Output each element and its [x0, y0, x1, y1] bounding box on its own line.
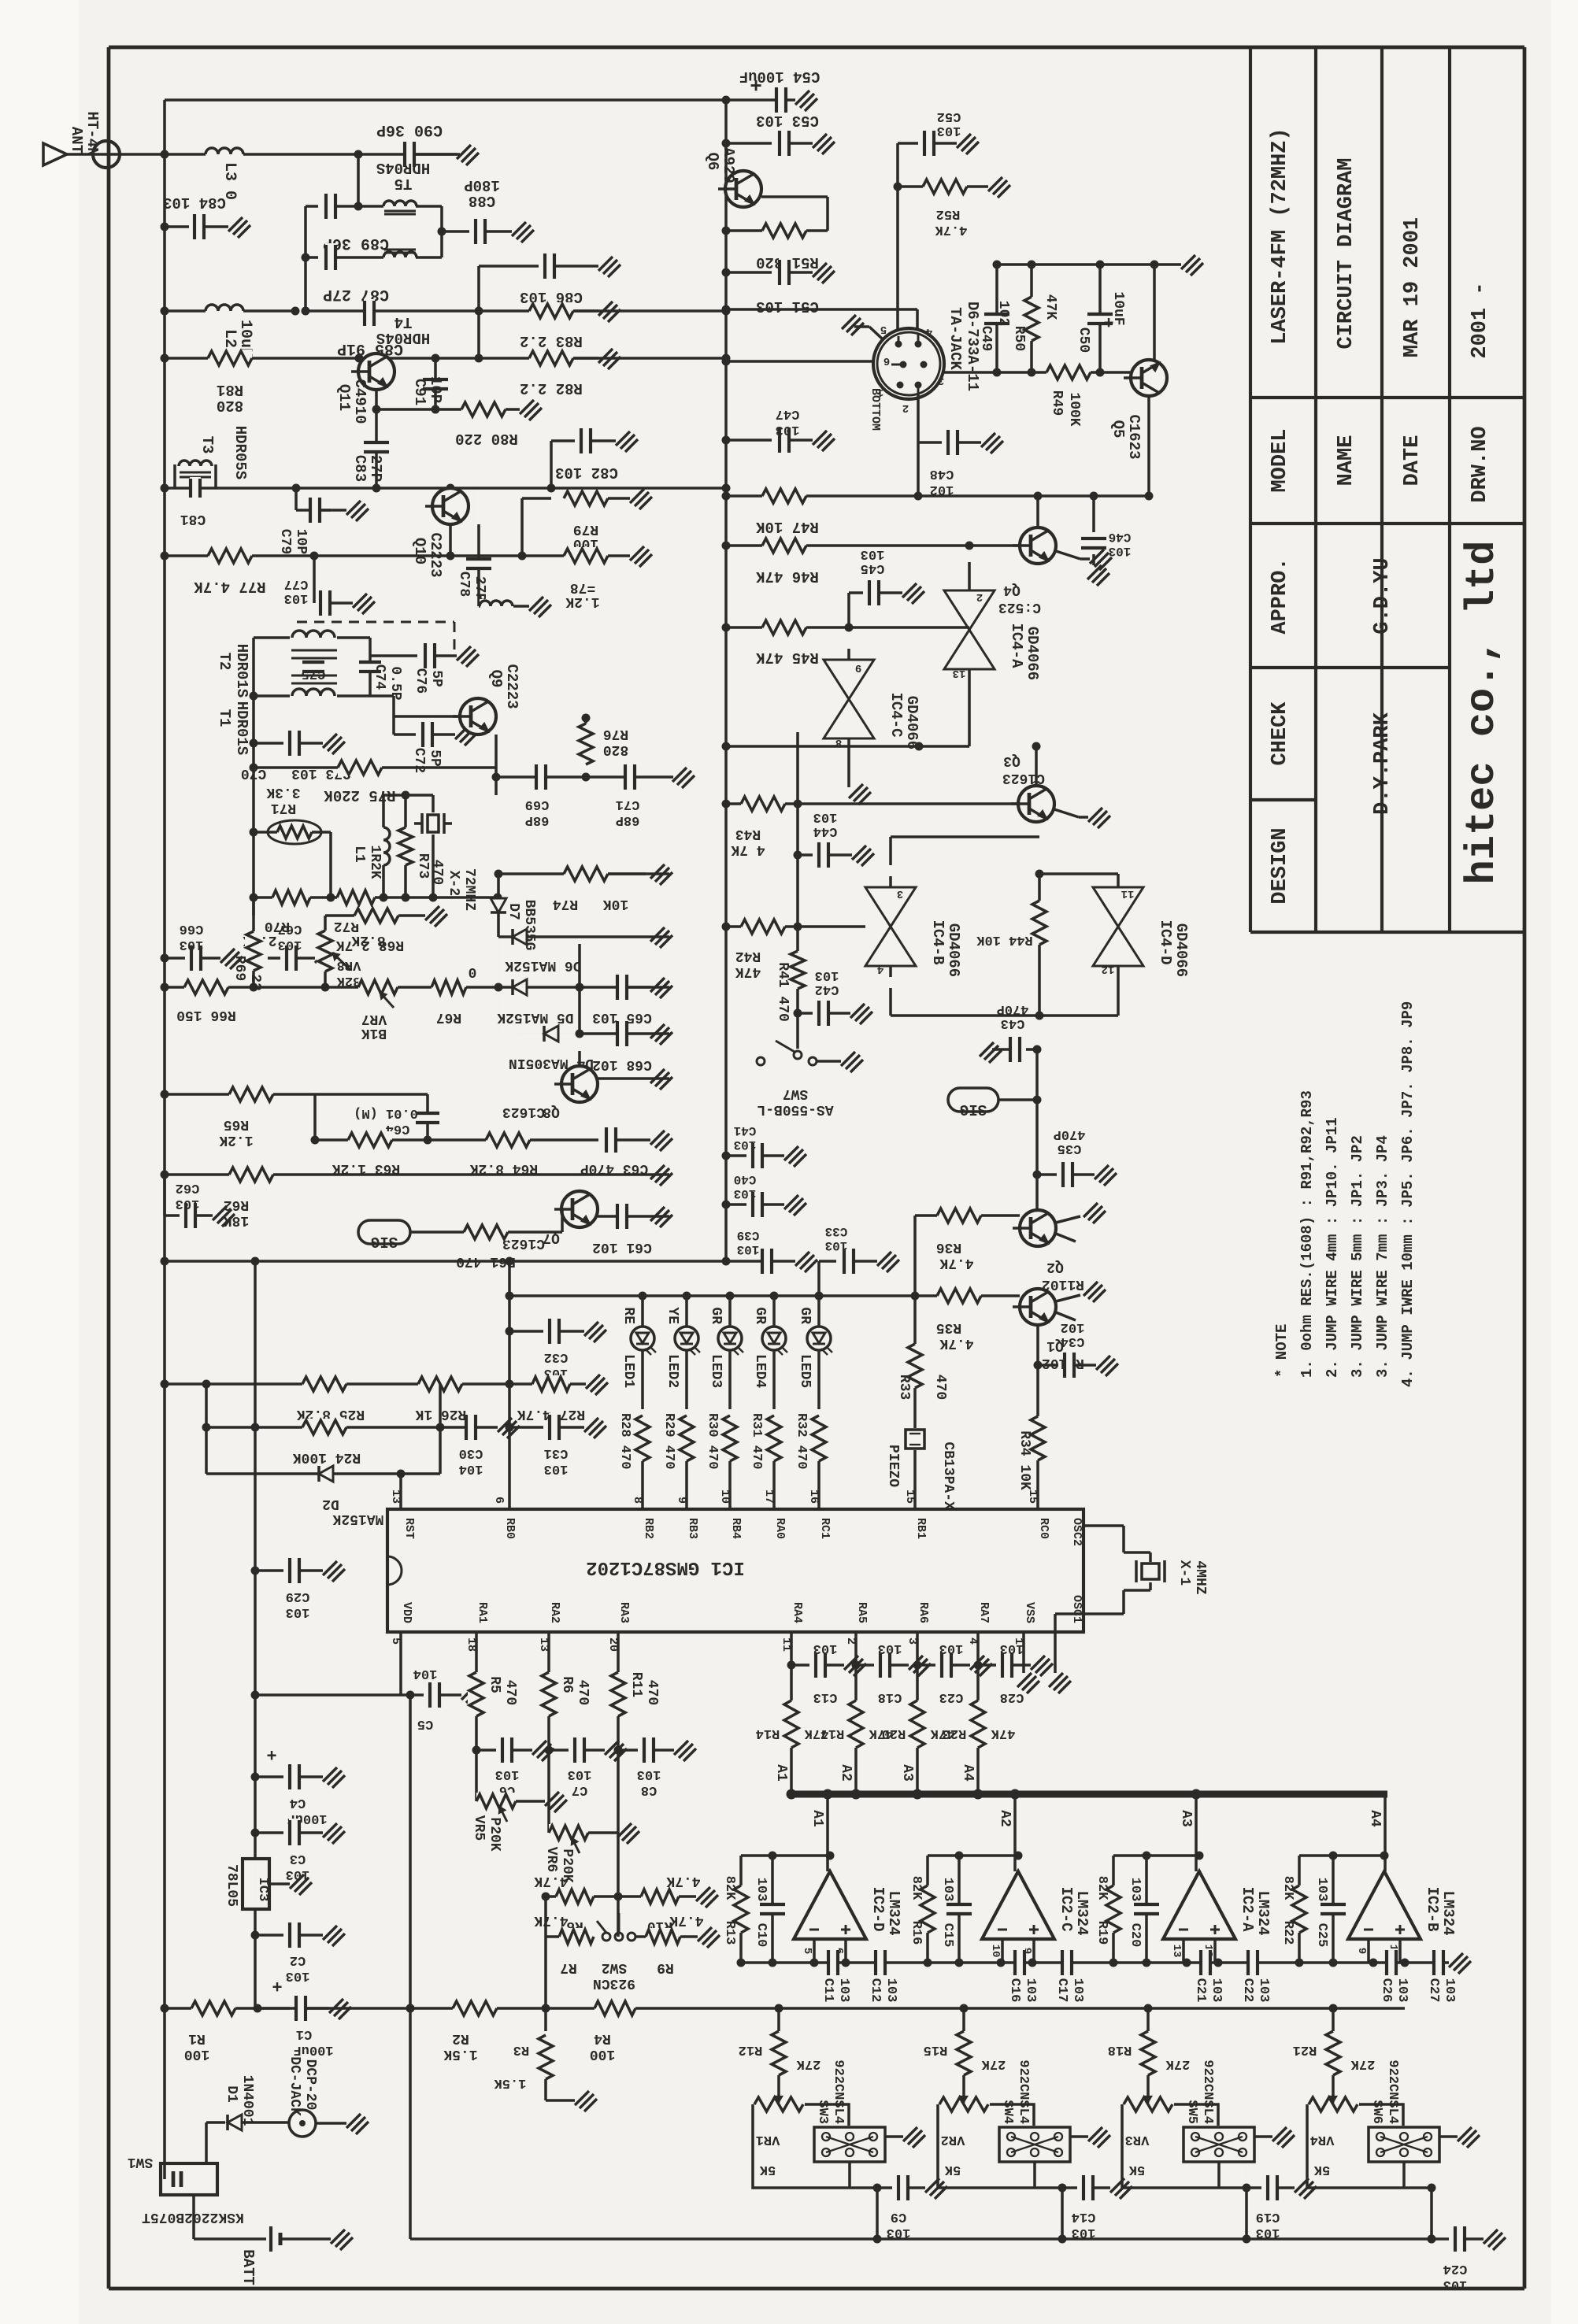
svg-text:T5: T5: [394, 175, 413, 192]
svg-text:R79: R79: [573, 521, 598, 537]
ground after C72: [455, 725, 477, 746]
svg-text:103: 103: [1072, 2225, 1096, 2240]
svg-text:C19: C19: [1256, 2209, 1280, 2224]
svg-text:103: 103: [176, 1196, 200, 1211]
svg-text:2: 2: [976, 590, 983, 603]
svg-text:RA3: RA3: [617, 1602, 631, 1623]
svg-text:C45: C45: [861, 561, 885, 575]
svg-text:R35: R35: [936, 1319, 961, 1335]
svg-text:RB1: RB1: [914, 1518, 928, 1539]
svg-text:103: 103: [1314, 1878, 1329, 1902]
svg-text:C13: C13: [813, 1689, 838, 1704]
capacitor C85 91P: [364, 299, 375, 328]
ground after C40: [784, 1195, 806, 1216]
svg-text:YE: YE: [665, 1307, 680, 1324]
svg-text:A2: A2: [997, 1810, 1013, 1827]
svg-text:103: 103: [813, 809, 838, 824]
resistor R19 82K: [1112, 1856, 1115, 1963]
capacitor C33 103: [817, 1261, 820, 1296]
svg-text:12: 12: [1102, 963, 1115, 975]
svg-text:C30: C30: [459, 1445, 483, 1460]
wire R77 row y706: [165, 554, 564, 557]
svg-text:L2: L2: [220, 329, 239, 348]
resistor R10 4.7K: [618, 1895, 654, 1898]
capacitor C23 103: [917, 1663, 935, 1667]
svg-text:R41 470: R41 470: [775, 962, 791, 1022]
svg-text:IC2-D: IC2-D: [869, 1886, 887, 1931]
wire pins to caps group: [790, 1632, 793, 1794]
svg-text:15: 15: [1026, 1490, 1039, 1504]
wire rail y630 R47: [726, 494, 1149, 498]
svg-text:27K: 27K: [1165, 2056, 1190, 2071]
svg-text:47K: 47K: [735, 964, 761, 979]
svg-text:RA0: RA0: [773, 1518, 787, 1539]
resistor R51 820: [762, 222, 806, 239]
capacitor C4 100uF: [251, 1773, 260, 1782]
svg-text:C69: C69: [525, 797, 550, 812]
svg-text:HDR04S: HDR04S: [376, 159, 430, 176]
svg-text:R7: R7: [560, 1959, 577, 1975]
svg-text:470: 470: [575, 1680, 591, 1705]
svg-text:470P: 470P: [997, 1001, 1029, 1016]
svg-text:APPRO.: APPRO.: [1269, 557, 1292, 634]
svg-text:D5 MA152K: D5 MA152K: [497, 1009, 573, 1025]
ground after C7: [605, 1741, 627, 1761]
svg-text:Q9: Q9: [487, 670, 505, 688]
ground after R74: [650, 864, 672, 885]
LED1 RE: [631, 1327, 654, 1350]
ground after R68: [425, 906, 447, 927]
capacitor C79 10P: [294, 488, 298, 510]
svg-text:103: 103: [1442, 1978, 1457, 2003]
op-amp IC2-B LM324: [1348, 1871, 1421, 1939]
svg-text:IC2-B: IC2-B: [1424, 1886, 1441, 1931]
svg-text:C4910: C4910: [351, 379, 369, 424]
svg-text:MA152K: MA152K: [332, 1511, 383, 1527]
resistor R50 47K: [1030, 265, 1033, 372]
ground after dc jack: [346, 2114, 369, 2134]
wire VR4 to bottom rail: [1430, 2188, 1433, 2239]
svg-text:1.2K: 1.2K: [565, 594, 599, 609]
net label A2 riser: [1013, 1794, 1017, 1871]
svg-text:RC0: RC0: [1037, 1518, 1050, 1539]
wire x1013 column: [796, 732, 799, 927]
svg-text:C43: C43: [1001, 1016, 1025, 1031]
svg-text:R12: R12: [739, 2042, 763, 2057]
svg-text:C24: C24: [1443, 2261, 1468, 2276]
svg-text:SW3: SW3: [815, 2100, 830, 2124]
svg-text:103: 103: [815, 968, 839, 983]
wire left inner rail: [163, 100, 166, 1261]
svg-text:GD4066: GD4066: [903, 696, 920, 749]
svg-text:R83 2.2: R83 2.2: [520, 332, 583, 350]
svg-text:A2: A2: [838, 1764, 854, 1782]
svg-text:103: 103: [813, 1641, 838, 1656]
ground after C71: [672, 768, 695, 788]
svg-text:R15: R15: [924, 2042, 948, 2057]
svg-text:C71: C71: [616, 797, 640, 812]
svg-text:C77: C77: [284, 576, 309, 591]
wire riser x1162: [913, 1216, 917, 1296]
capacitor C63 470P: [561, 1139, 563, 1141]
svg-text:B1K: B1K: [361, 1025, 387, 1041]
svg-text:R19: R19: [1095, 1921, 1109, 1945]
ground after C3: [323, 1823, 345, 1844]
svg-text:RB3: RB3: [686, 1518, 699, 1539]
transistor Q1 R1102: [1020, 1289, 1056, 1325]
svg-text:MODEL: MODEL: [1269, 428, 1292, 492]
ground after R83: [598, 302, 620, 322]
wire R65 row: [165, 1093, 428, 1096]
svg-text:C11: C11: [820, 1978, 835, 2003]
svg-text:BB535G: BB535G: [521, 900, 537, 951]
resistor R67 0: [432, 979, 466, 996]
svg-text:0.01 (M): 0.01 (M): [354, 1105, 418, 1120]
svg-text:SW7: SW7: [783, 1086, 808, 1101]
capacitor C19 103: [1246, 2186, 1261, 2189]
svg-text:1.2K: 1.2K: [219, 1132, 253, 1148]
svg-text:R77 4.7K: R77 4.7K: [194, 578, 266, 595]
svg-text:GD4066: GD4066: [1024, 627, 1041, 680]
ground after C86: [598, 257, 620, 277]
svg-text:9: 9: [675, 1497, 688, 1504]
svg-text:103: 103: [878, 1641, 902, 1656]
svg-text:15: 15: [903, 1490, 917, 1504]
svg-text:HDR05S: HDR05S: [232, 426, 249, 479]
svg-text:10uF: 10uF: [1110, 291, 1126, 325]
svg-text:27K: 27K: [796, 2056, 820, 2071]
svg-text:R47 10K: R47 10K: [756, 518, 819, 535]
svg-text:T2: T2: [216, 653, 233, 671]
svg-text:BATT: BATT: [239, 2249, 257, 2285]
svg-text:470: 470: [502, 1680, 518, 1705]
svg-text:R68 2.7K: R68 2.7K: [336, 937, 405, 953]
ground after C46: [1087, 565, 1109, 586]
svg-text:SIG: SIG: [371, 1233, 398, 1250]
capacitor C64 0.01(M): [426, 1094, 429, 1140]
svg-text:C1623: C1623: [1002, 770, 1045, 786]
resistor R20 47K: [909, 1700, 926, 1748]
svg-text:hitec co., ltd: hitec co., ltd: [1459, 541, 1506, 885]
capacitor C72 5P: [392, 716, 395, 735]
svg-text:C66: C66: [180, 921, 204, 936]
ground after C8: [674, 1741, 696, 1761]
svg-text:4.7K: 4.7K: [669, 1912, 703, 1928]
svg-text:2. JUMP WIRE 4mm : JP10. JP: 2. JUMP WIRE 4mm : JP10. JP11: [1324, 1117, 1341, 1378]
switch SW1 KSK2202B075T: [165, 2178, 168, 2180]
svg-text:C7: C7: [572, 1782, 587, 1797]
resistor R74 10K: [564, 865, 608, 883]
crystal X-1 4MHZ: [1083, 1524, 1124, 1527]
svg-text:4.7K: 4.7K: [534, 1912, 568, 1928]
svg-text:IC4-A: IC4-A: [1008, 623, 1025, 668]
net label A4 riser: [1384, 1794, 1387, 1871]
svg-text:103: 103: [495, 1767, 520, 1782]
svg-text:TA-JACK: TA-JACK: [946, 307, 964, 370]
svg-text:103: 103: [1000, 1641, 1024, 1656]
svg-text:R49: R49: [1049, 390, 1065, 416]
capacitor C2 103: [251, 1931, 260, 1940]
svg-text:C75: C75: [302, 666, 326, 681]
capacitor C46 103: [1092, 496, 1095, 532]
svg-text:C31: C31: [544, 1445, 569, 1460]
wire riser x608: [477, 266, 480, 358]
svg-text:922CNSL4: 922CNSL4: [1016, 2059, 1031, 2124]
potentiometer VR6 P20K: [549, 1824, 588, 1841]
svg-text:ANT: ANT: [68, 127, 85, 154]
svg-text:R81: R81: [217, 381, 243, 398]
analog switch IC4-D GD4066: [1093, 887, 1143, 966]
svg-text:C2223: C2223: [503, 664, 520, 709]
svg-text:D2: D2: [322, 1496, 339, 1512]
transistor Q5 C1623: [1131, 360, 1167, 396]
svg-text:5: 5: [801, 1948, 813, 1954]
svg-text:D6 MA152K: D6 MA152K: [505, 957, 581, 973]
resistor R76 820: [577, 723, 595, 764]
svg-text:SW5: SW5: [1184, 2100, 1199, 2124]
svg-text:GR: GR: [752, 1307, 768, 1324]
transformer T3 HDR05S: [173, 464, 176, 488]
svg-text:Q11: Q11: [335, 384, 353, 411]
svg-text:R43: R43: [735, 826, 761, 842]
svg-text:103: 103: [1109, 544, 1132, 558]
svg-text:103: 103: [1395, 1978, 1409, 2003]
wire VR2 bottom: [1033, 2162, 1036, 2188]
wire top stub IC2-C: [928, 1854, 1018, 1857]
svg-text:A4: A4: [960, 1764, 976, 1782]
potentiometer VR7 B1K: [358, 979, 398, 996]
resistor R49 100K: [1046, 364, 1091, 381]
resistor R81 820: [208, 350, 252, 367]
capacitor C49 102: [995, 265, 998, 372]
svg-text:R30 470: R30 470: [705, 1413, 720, 1469]
svg-text:68P: 68P: [525, 812, 550, 827]
svg-text:470P: 470P: [1054, 1127, 1086, 1142]
resistor R68 2.7K: [325, 914, 425, 917]
capacitor C41 103: [726, 1154, 746, 1157]
svg-text:VR1: VR1: [756, 2132, 780, 2147]
ground after C14: [1110, 2178, 1132, 2199]
svg-text:C44: C44: [813, 823, 838, 838]
svg-text:AS-550B-L: AS-550B-L: [757, 1101, 833, 1117]
resistor R42 47K: [741, 918, 785, 935]
svg-text:C14: C14: [1072, 2209, 1096, 2224]
svg-text:+: +: [266, 1744, 276, 1763]
svg-text:1: 1: [877, 386, 883, 398]
net label A1 riser: [826, 1794, 829, 1871]
svg-text:C83: C83: [351, 455, 369, 482]
svg-text:VR5: VR5: [471, 1815, 487, 1841]
svg-text:C47: C47: [776, 406, 800, 421]
ground after C41: [784, 1146, 806, 1167]
svg-text:R80 220: R80 220: [455, 430, 518, 447]
svg-text:R65: R65: [224, 1116, 249, 1132]
resistor R52 4.7K: [898, 185, 923, 188]
capacitor C30 104: [439, 1384, 442, 1474]
svg-text:103: 103: [776, 422, 800, 437]
svg-text:104: 104: [459, 1461, 483, 1476]
resistor R36 4.7K: [915, 1214, 937, 1217]
svg-text:RB4: RB4: [729, 1518, 743, 1539]
ground IC4-C: [849, 784, 871, 805]
svg-text:103: 103: [825, 1238, 848, 1253]
svg-text:C91: C91: [411, 379, 428, 405]
svg-text:100uF: 100uF: [293, 2042, 333, 2057]
wire riser to filter: [357, 154, 360, 206]
resistor R77 4.7K: [208, 547, 252, 564]
resistor R13 82K: [739, 1856, 743, 1963]
svg-text:C35: C35: [1058, 1141, 1082, 1156]
oval SIG left: [358, 1220, 410, 1244]
svg-text:C4: C4: [290, 1795, 306, 1810]
svg-text:PIEZO: PIEZO: [885, 1445, 901, 1487]
wire op-amp bottom rail y2493: [741, 1961, 1449, 1964]
capacitor C5 104: [401, 1693, 424, 1697]
resistor R9 4.7K: [635, 1935, 650, 1938]
switch SW4 922CNSL4: [999, 2127, 1070, 2162]
svg-text:102: 102: [1061, 1319, 1085, 1334]
svg-text:C62: C62: [176, 1180, 200, 1195]
svg-text:R67: R67: [436, 1009, 461, 1025]
svg-text:RA4: RA4: [791, 1602, 804, 1623]
wire R80 row: [375, 390, 378, 409]
potentiometer VR2 5K: [938, 2104, 976, 2188]
ground after C29: [323, 1561, 345, 1582]
svg-text:C78: C78: [456, 572, 472, 597]
transistor Q4 C1623: [1020, 527, 1056, 564]
wire row y1254: [165, 986, 669, 989]
ground after C42: [850, 1004, 872, 1024]
capacitor C1 100uF: [257, 2008, 283, 2009]
svg-text:T1: T1: [216, 709, 233, 727]
svg-text:3: 3: [897, 887, 903, 900]
svg-text:RA1: RA1: [476, 1602, 489, 1623]
svg-text:R1102: R1102: [1042, 1276, 1084, 1292]
svg-text:IC2-C: IC2-C: [1058, 1886, 1075, 1931]
svg-text:R44 10K: R44 10K: [976, 932, 1033, 947]
svg-text:C42: C42: [815, 982, 839, 997]
svg-text:RA2: RA2: [548, 1602, 561, 1623]
svg-text:IC4-B: IC4-B: [929, 920, 946, 964]
resistor R4 100: [595, 2000, 635, 2017]
svg-text:C67: C67: [278, 921, 302, 936]
svg-text:C90 36P: C90 36P: [376, 120, 443, 139]
svg-text:SW4: SW4: [1000, 2100, 1015, 2124]
capacitor C39 103: [761, 1247, 772, 1275]
ground after C6: [532, 1741, 554, 1761]
svg-text:103: 103: [544, 1461, 569, 1476]
ground after C66: [220, 949, 243, 969]
ground after R10: [696, 1887, 718, 1908]
svg-text:R5: R5: [487, 1676, 502, 1693]
capacitor C86 103: [479, 265, 539, 268]
svg-text:DC-JACK: DC-JACK: [287, 2056, 302, 2116]
capacitor C11 103: [828, 1948, 839, 1977]
svg-text:9: 9: [855, 661, 861, 674]
svg-text:R50: R50: [1011, 326, 1027, 351]
ground after C52: [957, 134, 979, 154]
ground end rail y2493: [1449, 1953, 1471, 1974]
analog switch IC4-C GD4066: [824, 660, 874, 738]
wire R42 row: [726, 925, 865, 928]
svg-text:100: 100: [184, 2046, 209, 2062]
wire filter left riser: [304, 206, 307, 311]
capacitor C28 103: [978, 1663, 996, 1667]
svg-text:C21: C21: [1193, 1978, 1208, 2003]
resistor R7 4.7K: [546, 1935, 567, 1938]
svg-text:47K: 47K: [1043, 294, 1058, 320]
svg-text:GR: GR: [708, 1307, 724, 1324]
resistor R34 10K: [1029, 1416, 1046, 1460]
svg-text:C1623: C1623: [502, 1235, 545, 1251]
svg-text:C2: C2: [290, 1952, 306, 1967]
svg-text:C28: C28: [1000, 1689, 1024, 1704]
svg-text:C53 103: C53 103: [756, 112, 819, 129]
svg-text:C16: C16: [1007, 1978, 1022, 2003]
svg-text:C27: C27: [1426, 1978, 1441, 2003]
wire top stub IC2-D: [741, 1854, 830, 1857]
svg-text:R74: R74: [553, 896, 579, 912]
svg-text:LED3: LED3: [708, 1354, 724, 1388]
capacitor C25 103: [1332, 1856, 1335, 1963]
svg-text:103: 103: [1256, 1978, 1271, 2003]
svg-text:VR2: VR2: [941, 2132, 965, 2147]
capacitor C15 103: [958, 1856, 961, 1963]
capacitor C32 103: [509, 1330, 543, 1333]
svg-text:C26: C26: [1379, 1978, 1394, 2003]
ground after C65: [650, 978, 672, 998]
op-amp IC2-A LM324: [1163, 1871, 1235, 1939]
IC1 ground stubs: [1022, 1632, 1025, 1673]
capacitor C69 68P: [535, 763, 546, 791]
switch SW7 AS-550B-L: [796, 1013, 799, 1049]
wire R81 row: [165, 357, 726, 360]
capacitor C44 103: [798, 853, 813, 857]
wire R43 row: [726, 802, 1019, 805]
resistor R3 1.5K: [544, 2008, 547, 2031]
capacitor C16 103: [1014, 1948, 1025, 1977]
svg-text:1N4001: 1N4001: [239, 2075, 255, 2126]
capacitor C6 103: [472, 1746, 481, 1755]
potentiometer VR4 5K: [1307, 2104, 1345, 2188]
svg-text:R73: R73: [415, 853, 431, 879]
svg-text:C48: C48: [930, 466, 954, 481]
svg-text:* NOTE: * NOTE: [1273, 1324, 1291, 1378]
svg-text:C23: C23: [939, 1689, 964, 1704]
resistor R2 1.5K: [453, 2000, 497, 2017]
ground after C73: [323, 734, 345, 754]
resistor R30 470: [721, 1415, 739, 1461]
svg-text:C61 102: C61 102: [592, 1239, 652, 1255]
svg-text:5K: 5K: [944, 2162, 961, 2177]
title block grid: [1249, 47, 1252, 932]
svg-text:4: 4: [877, 963, 883, 975]
svg-text:VR7: VR7: [361, 1011, 387, 1027]
transformer T1 HDR01S: [254, 694, 290, 698]
capacitor C82 103: [550, 441, 553, 488]
svg-text:R45 47K: R45 47K: [756, 649, 819, 666]
transistor Q9 C2223: [460, 698, 496, 735]
svg-text:100: 100: [590, 2046, 615, 2062]
svg-text:C17: C17: [1054, 1978, 1069, 2003]
svg-text:R9: R9: [657, 1959, 674, 1975]
resistor R24 100K: [302, 1419, 346, 1436]
capacitor C21 103: [1200, 1948, 1211, 1977]
svg-text:SIG: SIG: [960, 1101, 987, 1118]
svg-text:C52: C52: [937, 109, 961, 124]
svg-text:VR4: VR4: [1310, 2132, 1335, 2147]
svg-text:C1623: C1623: [1125, 414, 1143, 459]
